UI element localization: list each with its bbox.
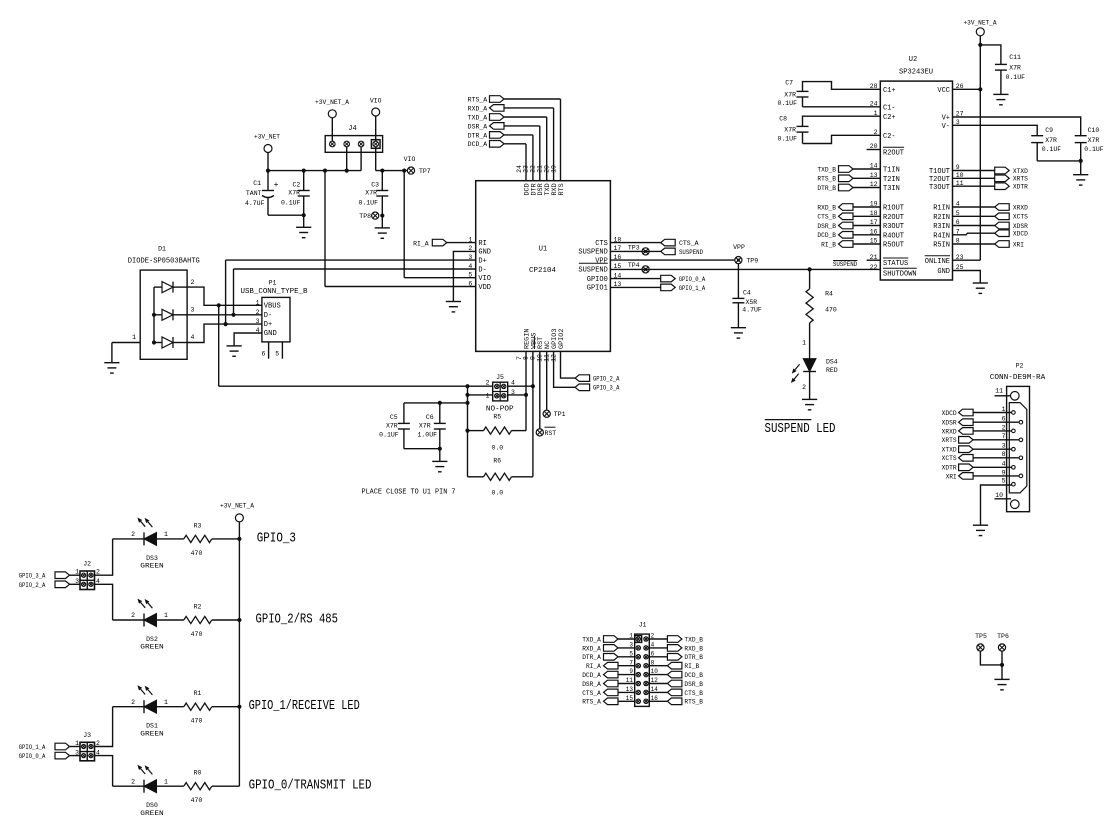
svg-text:SUSPEND LED: SUSPEND LED [765, 421, 836, 437]
wire J5 pin4 to pin8 [508, 385, 533, 387]
svg-text:R2IN: R2IN [933, 214, 950, 222]
svg-text:4: 4 [191, 334, 195, 341]
LED DS1 row [143, 700, 145, 713]
svg-text:TXD_A: TXD_A [582, 636, 601, 643]
P2 pin11 stub [995, 395, 1011, 397]
svg-text:C5: C5 [390, 414, 398, 421]
svg-text:D-: D- [478, 266, 486, 274]
capacitor C11 [980, 45, 1001, 65]
capacitor C9 [1031, 135, 1043, 137]
U1 box [476, 181, 611, 352]
svg-text:D+: D+ [264, 321, 272, 329]
svg-text:XCTS: XCTS [942, 455, 957, 462]
svg-text:GPIO2: GPIO2 [558, 329, 566, 349]
wire +3V_NET bus [268, 170, 361, 172]
wire C9 to C10 [1037, 160, 1081, 162]
svg-text:XRI: XRI [1013, 241, 1024, 248]
ground below C2 [303, 215, 305, 227]
svg-text:R4IN: R4IN [933, 232, 950, 240]
power flag +3V_NET [264, 145, 272, 153]
svg-text:SUSPEND: SUSPEND [679, 249, 703, 256]
svg-text:0.1UF: 0.1UF [358, 200, 378, 207]
svg-text:C6: C6 [426, 414, 434, 421]
wire +3V_NET to VDD [324, 171, 326, 287]
svg-text:RXD_B: RXD_B [684, 645, 703, 652]
diode D1c [162, 337, 173, 348]
svg-text:TP7: TP7 [419, 168, 431, 175]
wire VIO net [375, 147, 377, 171]
wire J2 pin2 to DS3 [95, 539, 113, 575]
svg-text:CONN-DE9M-RA: CONN-DE9M-RA [990, 374, 1046, 382]
svg-text:U1: U1 [539, 246, 547, 254]
svg-text:X7R: X7R [1009, 65, 1021, 72]
testpoint TP1 [543, 410, 550, 417]
svg-text:R3OUT: R3OUT [883, 223, 904, 231]
svg-text:C1-: C1- [883, 104, 896, 112]
svg-text:RTS_A: RTS_A [468, 96, 488, 103]
svg-text:XRI: XRI [946, 473, 957, 480]
svg-text:DSR_A: DSR_A [582, 681, 601, 688]
wire J5 pin3 to pin7 [508, 394, 526, 396]
LED DS2 row [143, 614, 145, 627]
wire D+ net [226, 323, 262, 325]
svg-text:DTR_B: DTR_B [817, 185, 836, 192]
resistor R4 [809, 269, 811, 289]
svg-text:TXD_A: TXD_A [468, 114, 488, 121]
net tag XRI [953, 243, 995, 245]
svg-text:470: 470 [191, 797, 203, 804]
svg-text:7: 7 [629, 659, 633, 666]
ground below C10 [1080, 161, 1082, 175]
svg-text:CP2104: CP2104 [529, 267, 556, 275]
ground below C4 [731, 327, 746, 329]
wire V- to C9 [953, 125, 1038, 135]
svg-text:CTS_A: CTS_A [582, 690, 601, 697]
wire NC pin10 [546, 351, 548, 410]
power flag +3V_NET_A at U2 [976, 28, 984, 36]
svg-text:GREEN: GREEN [140, 563, 164, 570]
svg-text:GPIO1: GPIO1 [587, 285, 608, 293]
wire C1- [803, 106, 881, 108]
svg-text:1: 1 [164, 612, 168, 619]
svg-text:2: 2 [651, 633, 655, 640]
svg-text:XCTS: XCTS [1013, 214, 1028, 221]
header J1 pins [636, 637, 640, 641]
svg-text:RXD_A: RXD_A [468, 105, 488, 112]
testpoint TP5 [977, 644, 984, 651]
svg-text:GPIO_0/TRANSMIT LED: GPIO_0/TRANSMIT LED [249, 778, 372, 794]
svg-text:R5OUT: R5OUT [883, 242, 904, 250]
net tag XRTS [953, 177, 995, 179]
wire C5 C6 top [404, 402, 468, 404]
connector P2 box [1007, 386, 1030, 511]
svg-text:RTS_A: RTS_A [582, 699, 601, 706]
svg-text:ONLINE: ONLINE [925, 258, 950, 266]
svg-text:V-: V- [942, 123, 950, 131]
svg-text:GND: GND [478, 249, 491, 257]
svg-text:RXD_B: RXD_B [817, 204, 836, 211]
svg-text:C9: C9 [1045, 127, 1053, 134]
svg-text:R2: R2 [194, 604, 202, 611]
svg-text:1: 1 [132, 334, 136, 341]
wire VBUS [219, 304, 262, 306]
svg-text:D1: D1 [158, 246, 166, 253]
P2 shell bottom hole [1011, 500, 1020, 509]
svg-text:7: 7 [1002, 433, 1006, 440]
svg-text:0.0: 0.0 [491, 445, 503, 452]
svg-text:R1OUT: R1OUT [883, 205, 904, 213]
svg-text:R1IN: R1IN [933, 205, 950, 213]
svg-text:R0: R0 [194, 770, 202, 777]
svg-text:T3OUT: T3OUT [929, 184, 950, 192]
ground below DS4 [802, 398, 817, 400]
svg-text:5: 5 [1002, 478, 1006, 485]
wire C2+ [803, 116, 881, 126]
svg-text:DS3: DS3 [146, 555, 158, 562]
capacitor C4 [737, 264, 739, 299]
svg-text:470: 470 [825, 307, 837, 314]
svg-text:SUSPEND: SUSPEND [578, 249, 607, 257]
svg-text:DS1: DS1 [146, 723, 158, 730]
svg-text:DIODE-SP0503BAHTG: DIODE-SP0503BAHTG [128, 257, 200, 265]
svg-text:C10: C10 [1088, 127, 1100, 134]
svg-text:+: + [274, 181, 279, 190]
svg-text:1: 1 [164, 531, 168, 538]
svg-text:6: 6 [261, 351, 265, 358]
svg-text:XDSR: XDSR [942, 420, 957, 427]
svg-text:16: 16 [651, 695, 659, 702]
svg-text:SP3243EU: SP3243EU [899, 69, 933, 77]
testpoint TP4 [642, 266, 649, 273]
svg-text:XDTR: XDTR [1013, 184, 1028, 191]
svg-text:6: 6 [468, 280, 472, 287]
svg-text:12: 12 [651, 677, 659, 684]
net tag GPIO_1_A [610, 286, 660, 288]
diode array D1 box [140, 270, 187, 359]
svg-text:C2: C2 [292, 182, 300, 189]
P2 shell top hole [1011, 392, 1020, 401]
svg-text:GPIO_1_A: GPIO_1_A [19, 744, 46, 751]
svg-text:X7R: X7R [784, 92, 796, 99]
svg-text:X7R: X7R [386, 423, 398, 430]
svg-text:GREEN: GREEN [140, 730, 164, 737]
svg-text:C1+: C1+ [883, 87, 896, 95]
svg-text:1: 1 [486, 392, 490, 399]
ground at P2 [973, 524, 988, 526]
ground below C3 [381, 216, 383, 228]
svg-text:DTR_A: DTR_A [468, 132, 488, 139]
svg-text:0.1UF: 0.1UF [777, 100, 797, 107]
svg-text:9: 9 [629, 668, 633, 675]
svg-text:XDCD: XDCD [942, 410, 957, 417]
svg-text:4.7UF: 4.7UF [742, 307, 762, 314]
svg-text:C11: C11 [1009, 54, 1021, 61]
capacitor C1 [267, 171, 269, 191]
svg-text:470: 470 [191, 631, 203, 638]
svg-text:VBUS: VBUS [264, 302, 281, 310]
svg-text:1.0UF: 1.0UF [418, 431, 438, 438]
wire C1+ loop [803, 82, 881, 92]
header J1 box [635, 634, 650, 706]
svg-text:470: 470 [191, 550, 203, 557]
svg-text:4: 4 [468, 263, 472, 270]
testpoint TP8 [372, 212, 379, 219]
P2 pin10 stub [995, 498, 1012, 500]
svg-text:X7R: X7R [784, 127, 796, 134]
diode D1b [162, 309, 173, 320]
svg-text:2: 2 [131, 778, 135, 785]
svg-text:XDTR: XDTR [942, 465, 957, 472]
svg-text:1: 1 [164, 699, 168, 706]
svg-text:10: 10 [995, 492, 1003, 499]
P1 pin stubs 6 5 [268, 342, 270, 359]
capacitor C6 [439, 403, 441, 424]
svg-text:+3V_NET_A: +3V_NET_A [220, 502, 254, 509]
svg-text:DCD_A: DCD_A [468, 141, 488, 148]
testpoint TP7 [407, 167, 414, 174]
svg-text:P2: P2 [1016, 362, 1024, 369]
wire RST pin9 [539, 351, 541, 428]
svg-text:5: 5 [629, 650, 633, 657]
svg-text:CTS_A: CTS_A [679, 240, 699, 247]
svg-text:8: 8 [651, 659, 655, 666]
svg-text:XDCD: XDCD [1013, 231, 1028, 238]
svg-text:C4: C4 [743, 289, 751, 296]
wire J2 pin4 to DS2 [95, 584, 113, 620]
svg-text:T2IN: T2IN [883, 176, 900, 184]
svg-text:XRXD: XRXD [942, 428, 957, 435]
svg-text:XRTS: XRTS [1013, 176, 1028, 183]
P2 pin holes [1012, 411, 1016, 415]
svg-text:GREEN: GREEN [140, 644, 164, 651]
svg-text:VCC: VCC [937, 87, 950, 95]
net tag GPIO_0_A [610, 278, 660, 280]
svg-text:D+: D+ [478, 257, 486, 265]
svg-text:J4: J4 [348, 125, 356, 133]
svg-text:X7R: X7R [1045, 137, 1057, 144]
svg-text:RI: RI [478, 240, 486, 248]
svg-text:T1IN: T1IN [883, 167, 900, 175]
ground at U1 pin2 [446, 301, 461, 303]
svg-text:6: 6 [1002, 416, 1006, 423]
svg-text:VIO: VIO [478, 275, 491, 283]
svg-text:C3: C3 [371, 182, 379, 189]
wire J4 pin2 to bus [346, 147, 348, 171]
svg-text:DS0: DS0 [146, 802, 158, 809]
svg-text:TXD_B: TXD_B [817, 166, 836, 173]
svg-text:RTS_B: RTS_B [684, 699, 703, 706]
svg-text:11: 11 [995, 388, 1003, 395]
svg-text:TP4: TP4 [628, 262, 640, 269]
svg-text:R1: R1 [194, 690, 202, 697]
svg-text:GPIO_2_A: GPIO_2_A [593, 376, 620, 383]
wire V+ to C10 [953, 117, 1081, 136]
svg-text:RTS: RTS [558, 183, 566, 195]
ground at D1 pin1 [111, 343, 113, 363]
svg-text:C7: C7 [785, 80, 793, 87]
wire U2 GND [953, 271, 981, 284]
svg-text:DTR_B: DTR_B [684, 654, 703, 661]
net tag XDCD [953, 233, 995, 235]
svg-text:TP1: TP1 [554, 411, 566, 418]
testpoint TP6 [998, 644, 1005, 651]
svg-text:DS4: DS4 [826, 358, 838, 365]
svg-text:TP9: TP9 [746, 258, 758, 265]
svg-text:GPIO_2/RS 485: GPIO_2/RS 485 [256, 611, 339, 627]
wire SUSPEND net [610, 268, 880, 270]
wire C2- loop [803, 135, 881, 143]
ground at TP6 [994, 678, 1009, 680]
svg-text:X5R: X5R [746, 299, 758, 306]
svg-text:GPIO_2_A: GPIO_2_A [19, 582, 46, 589]
svg-text:GPIO_1_A: GPIO_1_A [679, 285, 706, 292]
diode D1a [162, 282, 173, 293]
svg-text:R2OUT: R2OUT [883, 149, 904, 157]
svg-text:XTXD: XTXD [1013, 168, 1028, 175]
wire U1 GND pin2 [453, 251, 475, 301]
svg-text:0.1UF: 0.1UF [1084, 146, 1104, 153]
svg-text:2: 2 [131, 612, 135, 619]
svg-text:CTS_B: CTS_B [684, 690, 703, 697]
wire D- net [234, 314, 262, 316]
svg-text:VIO: VIO [404, 156, 416, 163]
svg-text:USB_CONN_TYPE_B: USB_CONN_TYPE_B [241, 288, 308, 296]
svg-text:C8: C8 [779, 115, 787, 122]
testpoint TP3 [610, 250, 660, 252]
svg-text:TANT: TANT [246, 190, 262, 197]
svg-text:13: 13 [626, 686, 634, 693]
svg-text:DCD_B: DCD_B [817, 232, 836, 239]
svg-text:2: 2 [486, 380, 490, 387]
svg-text:GPIO_3_A: GPIO_3_A [19, 573, 46, 580]
svg-text:DCD_B: DCD_B [684, 672, 703, 679]
svg-text:+3V_NET: +3V_NET [254, 134, 280, 141]
svg-text:TP6: TP6 [997, 633, 1009, 640]
wire VBUS pin8 [532, 351, 534, 386]
connector P1 box [262, 297, 290, 342]
svg-text:3: 3 [191, 307, 195, 314]
LED DS4 arrows [795, 364, 800, 370]
ground at U2 GND [973, 282, 988, 284]
svg-text:DSR_A: DSR_A [468, 123, 488, 130]
wire D1 pin1 [112, 342, 140, 344]
svg-text:0.1UF: 0.1UF [1006, 74, 1026, 81]
svg-text:0.1UF: 0.1UF [379, 431, 399, 438]
svg-text:X7R: X7R [365, 190, 377, 197]
svg-text:R5: R5 [493, 414, 501, 421]
wire TP5 TP6 [980, 651, 1002, 665]
svg-text:X7R: X7R [1088, 137, 1100, 144]
svg-text:XTXD: XTXD [942, 447, 957, 454]
svg-text:2: 2 [131, 699, 135, 706]
net tag CTS_A [610, 242, 660, 244]
svg-text:15: 15 [626, 695, 634, 702]
P2 D-shape [1009, 403, 1027, 493]
svg-text:SUSPEND: SUSPEND [578, 267, 607, 275]
wire P1 GND [234, 333, 262, 346]
svg-text:RI_A: RI_A [413, 240, 429, 247]
net tag GPIO_2_A [561, 351, 576, 378]
svg-text:0.1UF: 0.1UF [777, 136, 797, 143]
svg-text:10: 10 [651, 668, 659, 675]
svg-text:TP5: TP5 [975, 633, 987, 640]
svg-text:DS2: DS2 [146, 636, 158, 643]
svg-text:D-: D- [264, 312, 272, 320]
svg-text:PLACE CLOSE TO U1 PIN 7: PLACE CLOSE TO U1 PIN 7 [362, 489, 456, 497]
capacitor C3 [381, 171, 383, 191]
svg-text:6: 6 [651, 650, 655, 657]
wire J3 pin2 to DS1 [95, 707, 113, 747]
svg-text:5: 5 [468, 272, 472, 279]
svg-text:RST: RST [545, 430, 557, 437]
header J1 pin1 square [635, 636, 642, 643]
svg-text:R6: R6 [493, 458, 501, 465]
stub R2OUT pin20 [867, 149, 881, 151]
wire VCC [953, 88, 981, 90]
svg-text:R3IN: R3IN [933, 223, 950, 231]
svg-text:0.0: 0.0 [491, 490, 503, 497]
net tag XDSR [953, 225, 995, 227]
svg-text:GND: GND [937, 268, 950, 276]
svg-text:GPIO_0_A: GPIO_0_A [19, 753, 46, 760]
svg-text:1: 1 [802, 340, 806, 347]
svg-text:2: 2 [191, 279, 195, 286]
svg-text:VPP: VPP [733, 244, 745, 251]
svg-text:4: 4 [1002, 461, 1006, 468]
capacitor C10 [1075, 135, 1087, 137]
svg-text:+3V_NET_A: +3V_NET_A [964, 19, 997, 26]
svg-text:J1: J1 [639, 621, 647, 628]
capacitor C2 [303, 171, 305, 191]
svg-text:3: 3 [1002, 443, 1006, 450]
svg-text:5: 5 [275, 351, 279, 358]
svg-text:1: 1 [164, 778, 168, 785]
svg-text:4: 4 [651, 642, 655, 649]
svg-text:GPIO0: GPIO0 [587, 276, 608, 284]
svg-text:T1OUT: T1OUT [929, 168, 950, 176]
LED DS0 row [143, 780, 145, 793]
ground below C6 [439, 449, 441, 462]
svg-text:R4: R4 [825, 290, 833, 297]
svg-text:XRTS: XRTS [942, 437, 957, 444]
U2 box [880, 81, 952, 280]
svg-text:0.1UF: 0.1UF [281, 200, 301, 207]
wire C1-C2 bottom [268, 214, 304, 216]
svg-text:2: 2 [802, 384, 806, 391]
svg-text:NO-POP: NO-POP [486, 405, 514, 413]
svg-text:RXD_A: RXD_A [582, 645, 601, 652]
wire REGIN pin7 [525, 351, 527, 395]
svg-text:DTR_A: DTR_A [582, 654, 601, 661]
ground at P1 [227, 345, 242, 347]
svg-text:1: 1 [1002, 406, 1006, 413]
wire VPP [610, 259, 734, 261]
stub STATUS pin21 [867, 259, 881, 261]
svg-text:0.1UF: 0.1UF [1042, 146, 1062, 153]
wire left vertical VBUS branch [467, 386, 469, 477]
svg-text:RI_B: RI_B [684, 663, 699, 670]
svg-text:R2OUT: R2OUT [883, 214, 904, 222]
ground below C11 [993, 93, 1008, 95]
svg-text:CTS_B: CTS_B [817, 214, 836, 221]
svg-text:C2-: C2- [883, 133, 896, 141]
capacitor C7 [797, 90, 809, 92]
svg-text:T3IN: T3IN [883, 185, 900, 193]
svg-text:RTS_B: RTS_B [817, 176, 836, 183]
svg-text:DCD_A: DCD_A [582, 672, 601, 679]
svg-text:R4OUT: R4OUT [883, 232, 904, 240]
svg-text:2: 2 [1002, 424, 1006, 431]
